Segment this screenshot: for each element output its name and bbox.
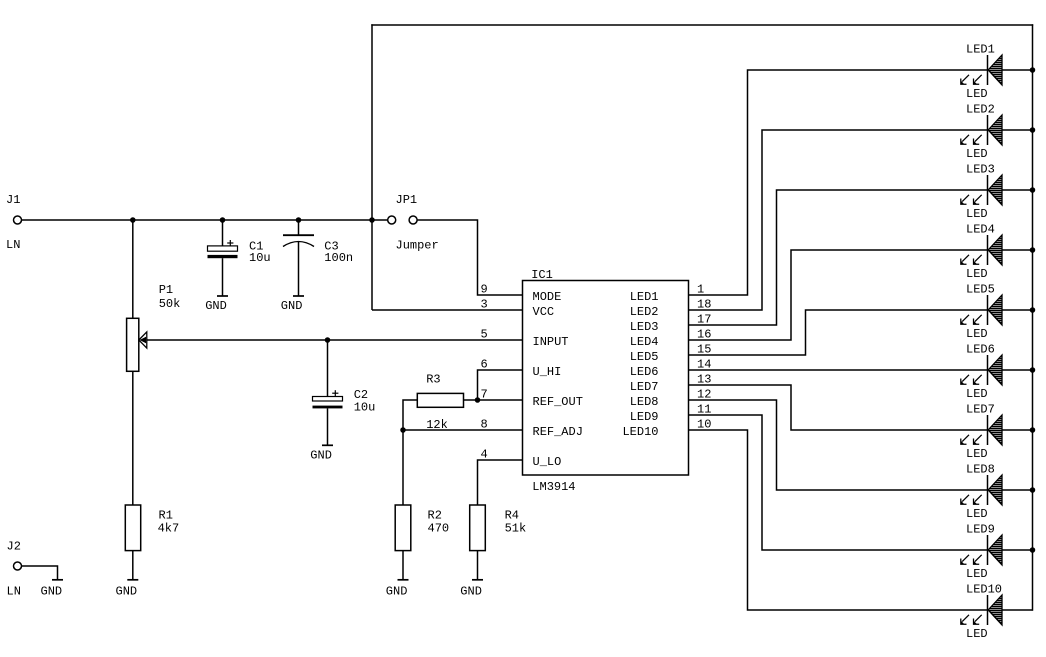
svg-text:6: 6 [481, 358, 488, 372]
svg-text:R3: R3 [426, 373, 440, 387]
junction LED8 anode bus [1030, 488, 1034, 492]
resistor R2 body [395, 505, 411, 551]
svg-text:5: 5 [481, 328, 488, 342]
LED1 diode symbol [987, 55, 989, 85]
ground C1 [217, 295, 228, 297]
svg-text:LED6: LED6 [630, 365, 659, 379]
LED4 diode symbol [987, 235, 989, 265]
svg-text:REF_OUT: REF_OUT [533, 395, 583, 409]
svg-text:LED4: LED4 [630, 335, 659, 349]
LED5 emission arrows [962, 315, 969, 322]
junction node REF_OUT [475, 398, 479, 402]
wire R3 to REF_ADJ [403, 400, 417, 430]
svg-text:LED1: LED1 [966, 43, 995, 57]
wire LED6 to bus [1002, 369, 1033, 371]
wire LED4 to bus [1002, 249, 1033, 251]
LED4 emission arrows [962, 255, 969, 262]
junction node C3 top [296, 218, 300, 222]
LED10 emission arrows [962, 615, 969, 622]
svg-text:7: 7 [481, 388, 488, 402]
wire LED10 to bus [1002, 609, 1033, 611]
LED3 diode symbol [987, 175, 989, 205]
svg-text:LED: LED [966, 447, 988, 461]
svg-text:LED: LED [966, 147, 988, 161]
svg-text:VCC: VCC [533, 305, 555, 319]
svg-text:LED10: LED10 [622, 425, 658, 439]
svg-text:Jumper: Jumper [396, 239, 439, 253]
wire pin 1 to LED1 [689, 70, 988, 295]
wire LED anode bus vertical [1032, 24, 1034, 610]
wire wiper to INPUT pin 5 [147, 339, 523, 341]
junction node C1 top [220, 218, 224, 222]
svg-text:LED: LED [966, 507, 988, 521]
wire LED3 to bus [1002, 189, 1033, 191]
LED9 emission arrows [962, 555, 969, 562]
wire top rail horizontal [371, 24, 1033, 26]
C1 plus sign [227, 242, 233, 244]
ground R4 [472, 579, 483, 581]
wire LED9 to bus [1002, 549, 1033, 551]
wire C2 to ground [327, 408, 329, 445]
ground R2 [398, 579, 409, 581]
LED6 emission arrows [962, 375, 969, 382]
svg-text:GND: GND [41, 584, 63, 598]
svg-text:470: 470 [428, 522, 450, 536]
svg-text:GND: GND [460, 584, 482, 598]
svg-text:LED: LED [966, 567, 988, 581]
wire LED5 to bus [1002, 309, 1033, 311]
svg-text:3: 3 [481, 298, 488, 312]
LED2 diode symbol [987, 115, 989, 145]
svg-text:LED10: LED10 [966, 583, 1002, 597]
potentiometer P1 wiper arrow [139, 332, 147, 348]
svg-text:GND: GND [205, 299, 227, 313]
svg-text:LM3914: LM3914 [532, 480, 575, 494]
wire pin 18 to LED2 [689, 130, 988, 310]
ground J2 [52, 579, 63, 581]
svg-text:GND: GND [386, 584, 408, 598]
wire to C1 [222, 220, 224, 246]
junction node REF_ADJ [401, 428, 405, 432]
wire LED7 to bus [1002, 429, 1033, 431]
wire pin 14 to LED6 [689, 369, 988, 371]
junction node C2 top [325, 338, 329, 342]
wire pin 15 to LED5 [689, 310, 988, 355]
svg-text:U_HI: U_HI [533, 365, 562, 379]
wire C3 to ground [298, 242, 300, 296]
svg-text:LED5: LED5 [966, 283, 995, 297]
svg-text:LED3: LED3 [966, 163, 995, 177]
wire to C2 [327, 340, 329, 397]
capacitor C1 plates [208, 246, 238, 251]
svg-text:LED: LED [966, 387, 988, 401]
svg-text:REF_ADJ: REF_ADJ [533, 425, 583, 439]
jumper JP1 pin 2 [409, 216, 417, 224]
resistor R1 body [125, 505, 140, 551]
svg-text:INPUT: INPUT [533, 335, 569, 349]
svg-text:LED1: LED1 [630, 290, 659, 304]
junction LED2 anode bus [1030, 128, 1034, 132]
wire LED1 to bus [1002, 69, 1033, 71]
capacitor C3 plates [283, 234, 314, 236]
wire LED8 to bus [1002, 489, 1033, 491]
svg-text:LED9: LED9 [630, 410, 659, 424]
svg-text:P1: P1 [159, 283, 173, 297]
svg-text:J2: J2 [7, 540, 21, 554]
capacitor C2 plates [313, 397, 343, 402]
op-amp U1 IC1 LM3914 body [523, 281, 689, 476]
svg-text:LED: LED [966, 207, 988, 221]
svg-text:GND: GND [116, 584, 138, 598]
svg-text:U_LO: U_LO [533, 455, 562, 469]
svg-text:LED4: LED4 [966, 223, 995, 237]
svg-text:4: 4 [481, 448, 488, 462]
wire pin 16 to LED4 [689, 250, 988, 340]
svg-text:R1: R1 [159, 509, 173, 523]
LED5 diode symbol [987, 295, 989, 325]
svg-text:LED7: LED7 [966, 403, 995, 417]
svg-text:LED6: LED6 [966, 343, 995, 357]
resistor R3 body [417, 393, 463, 407]
svg-text:LED7: LED7 [630, 380, 659, 394]
junction LED6 anode bus [1030, 368, 1034, 372]
svg-text:4k7: 4k7 [158, 522, 180, 536]
svg-text:LED8: LED8 [630, 395, 659, 409]
wire VCC to pin 3 [372, 309, 523, 311]
wire R4 to ground [477, 551, 479, 580]
connector J2 pin [14, 562, 22, 570]
svg-text:LED2: LED2 [966, 103, 995, 117]
LED9 diode symbol [987, 535, 989, 565]
wire pin 11 to LED9 [689, 415, 988, 550]
svg-text:LED5: LED5 [630, 350, 659, 364]
svg-text:J1: J1 [6, 193, 20, 207]
LED8 emission arrows [962, 495, 969, 502]
wire REF_ADJ pin 8 [403, 429, 523, 431]
ground C2 [322, 444, 333, 446]
LED7 diode symbol [987, 415, 989, 445]
svg-text:R2: R2 [428, 509, 442, 523]
wire JP1 to MODE pin 9 [417, 220, 522, 295]
svg-text:LN: LN [6, 238, 20, 252]
wire net LN horizontal [22, 219, 388, 221]
wire pin 13 to LED7 [689, 385, 988, 430]
svg-text:MODE: MODE [533, 290, 562, 304]
svg-text:JP1: JP1 [396, 193, 418, 207]
junction LED4 anode bus [1030, 248, 1034, 252]
svg-text:9: 9 [481, 283, 488, 297]
LED6 diode symbol [987, 355, 989, 385]
LED10 diode symbol [987, 595, 989, 625]
svg-text:LED: LED [966, 327, 988, 341]
wire pin 10 to LED10 [689, 430, 988, 610]
potentiometer P1 body [127, 318, 139, 371]
resistor R4 body [470, 505, 486, 551]
wire REF_OUT to U_HI pin 6 [478, 370, 523, 400]
junction LED7 anode bus [1030, 428, 1034, 432]
svg-text:LED: LED [966, 267, 988, 281]
LED3 emission arrows [962, 195, 969, 202]
junction LED1 anode bus [1030, 68, 1034, 72]
wire LED2 to bus [1002, 129, 1033, 131]
svg-text:GND: GND [310, 448, 332, 462]
svg-text:LED: LED [966, 87, 988, 101]
ground R1 [127, 579, 138, 581]
wire P1 to R1 [132, 371, 134, 505]
svg-text:100n: 100n [324, 251, 353, 265]
junction LED3 anode bus [1030, 188, 1034, 192]
wire REF_OUT pin 7 [478, 399, 523, 401]
svg-text:10u: 10u [354, 400, 376, 414]
svg-text:LED: LED [966, 627, 988, 641]
svg-text:GND: GND [281, 299, 303, 313]
wire VCC rail vertical [371, 24, 373, 310]
svg-text:LN: LN [7, 584, 21, 598]
junction node P1 top [131, 218, 135, 222]
svg-text:50k: 50k [159, 297, 181, 311]
wire R1 to ground [132, 551, 134, 580]
wire R2 to ground [402, 551, 404, 580]
wire J2 to ground [22, 566, 58, 580]
svg-text:LED8: LED8 [966, 463, 995, 477]
svg-text:IC1: IC1 [531, 268, 553, 282]
svg-text:R4: R4 [505, 509, 519, 523]
jumper JP1 pin 1 [388, 216, 396, 224]
junction LED9 anode bus [1030, 548, 1034, 552]
svg-text:LED2: LED2 [630, 305, 659, 319]
svg-text:LED9: LED9 [966, 523, 995, 537]
wire U_LO pin 4 to R4 [478, 460, 523, 505]
wire R3 to junction [464, 399, 478, 401]
svg-text:51k: 51k [505, 522, 527, 536]
wire pin 17 to LED3 [689, 190, 988, 325]
wire pin 12 to LED8 [689, 400, 988, 490]
junction LED5 anode bus [1030, 308, 1034, 312]
LED2 emission arrows [962, 135, 969, 142]
svg-text:8: 8 [481, 418, 488, 432]
svg-text:LED3: LED3 [630, 320, 659, 334]
wire to R2 [402, 430, 404, 505]
svg-text:10u: 10u [249, 251, 271, 265]
junction node VCC rail [370, 218, 374, 222]
ground C3 [293, 295, 304, 297]
wire to C3 [298, 220, 300, 235]
wire to P1 top [132, 220, 134, 318]
C2 plus sign [332, 392, 338, 394]
LED7 emission arrows [962, 435, 969, 442]
LED1 emission arrows [962, 75, 969, 82]
LED8 diode symbol [987, 475, 989, 505]
connector J1 pin [14, 216, 22, 224]
wire C1 to ground [222, 258, 224, 296]
